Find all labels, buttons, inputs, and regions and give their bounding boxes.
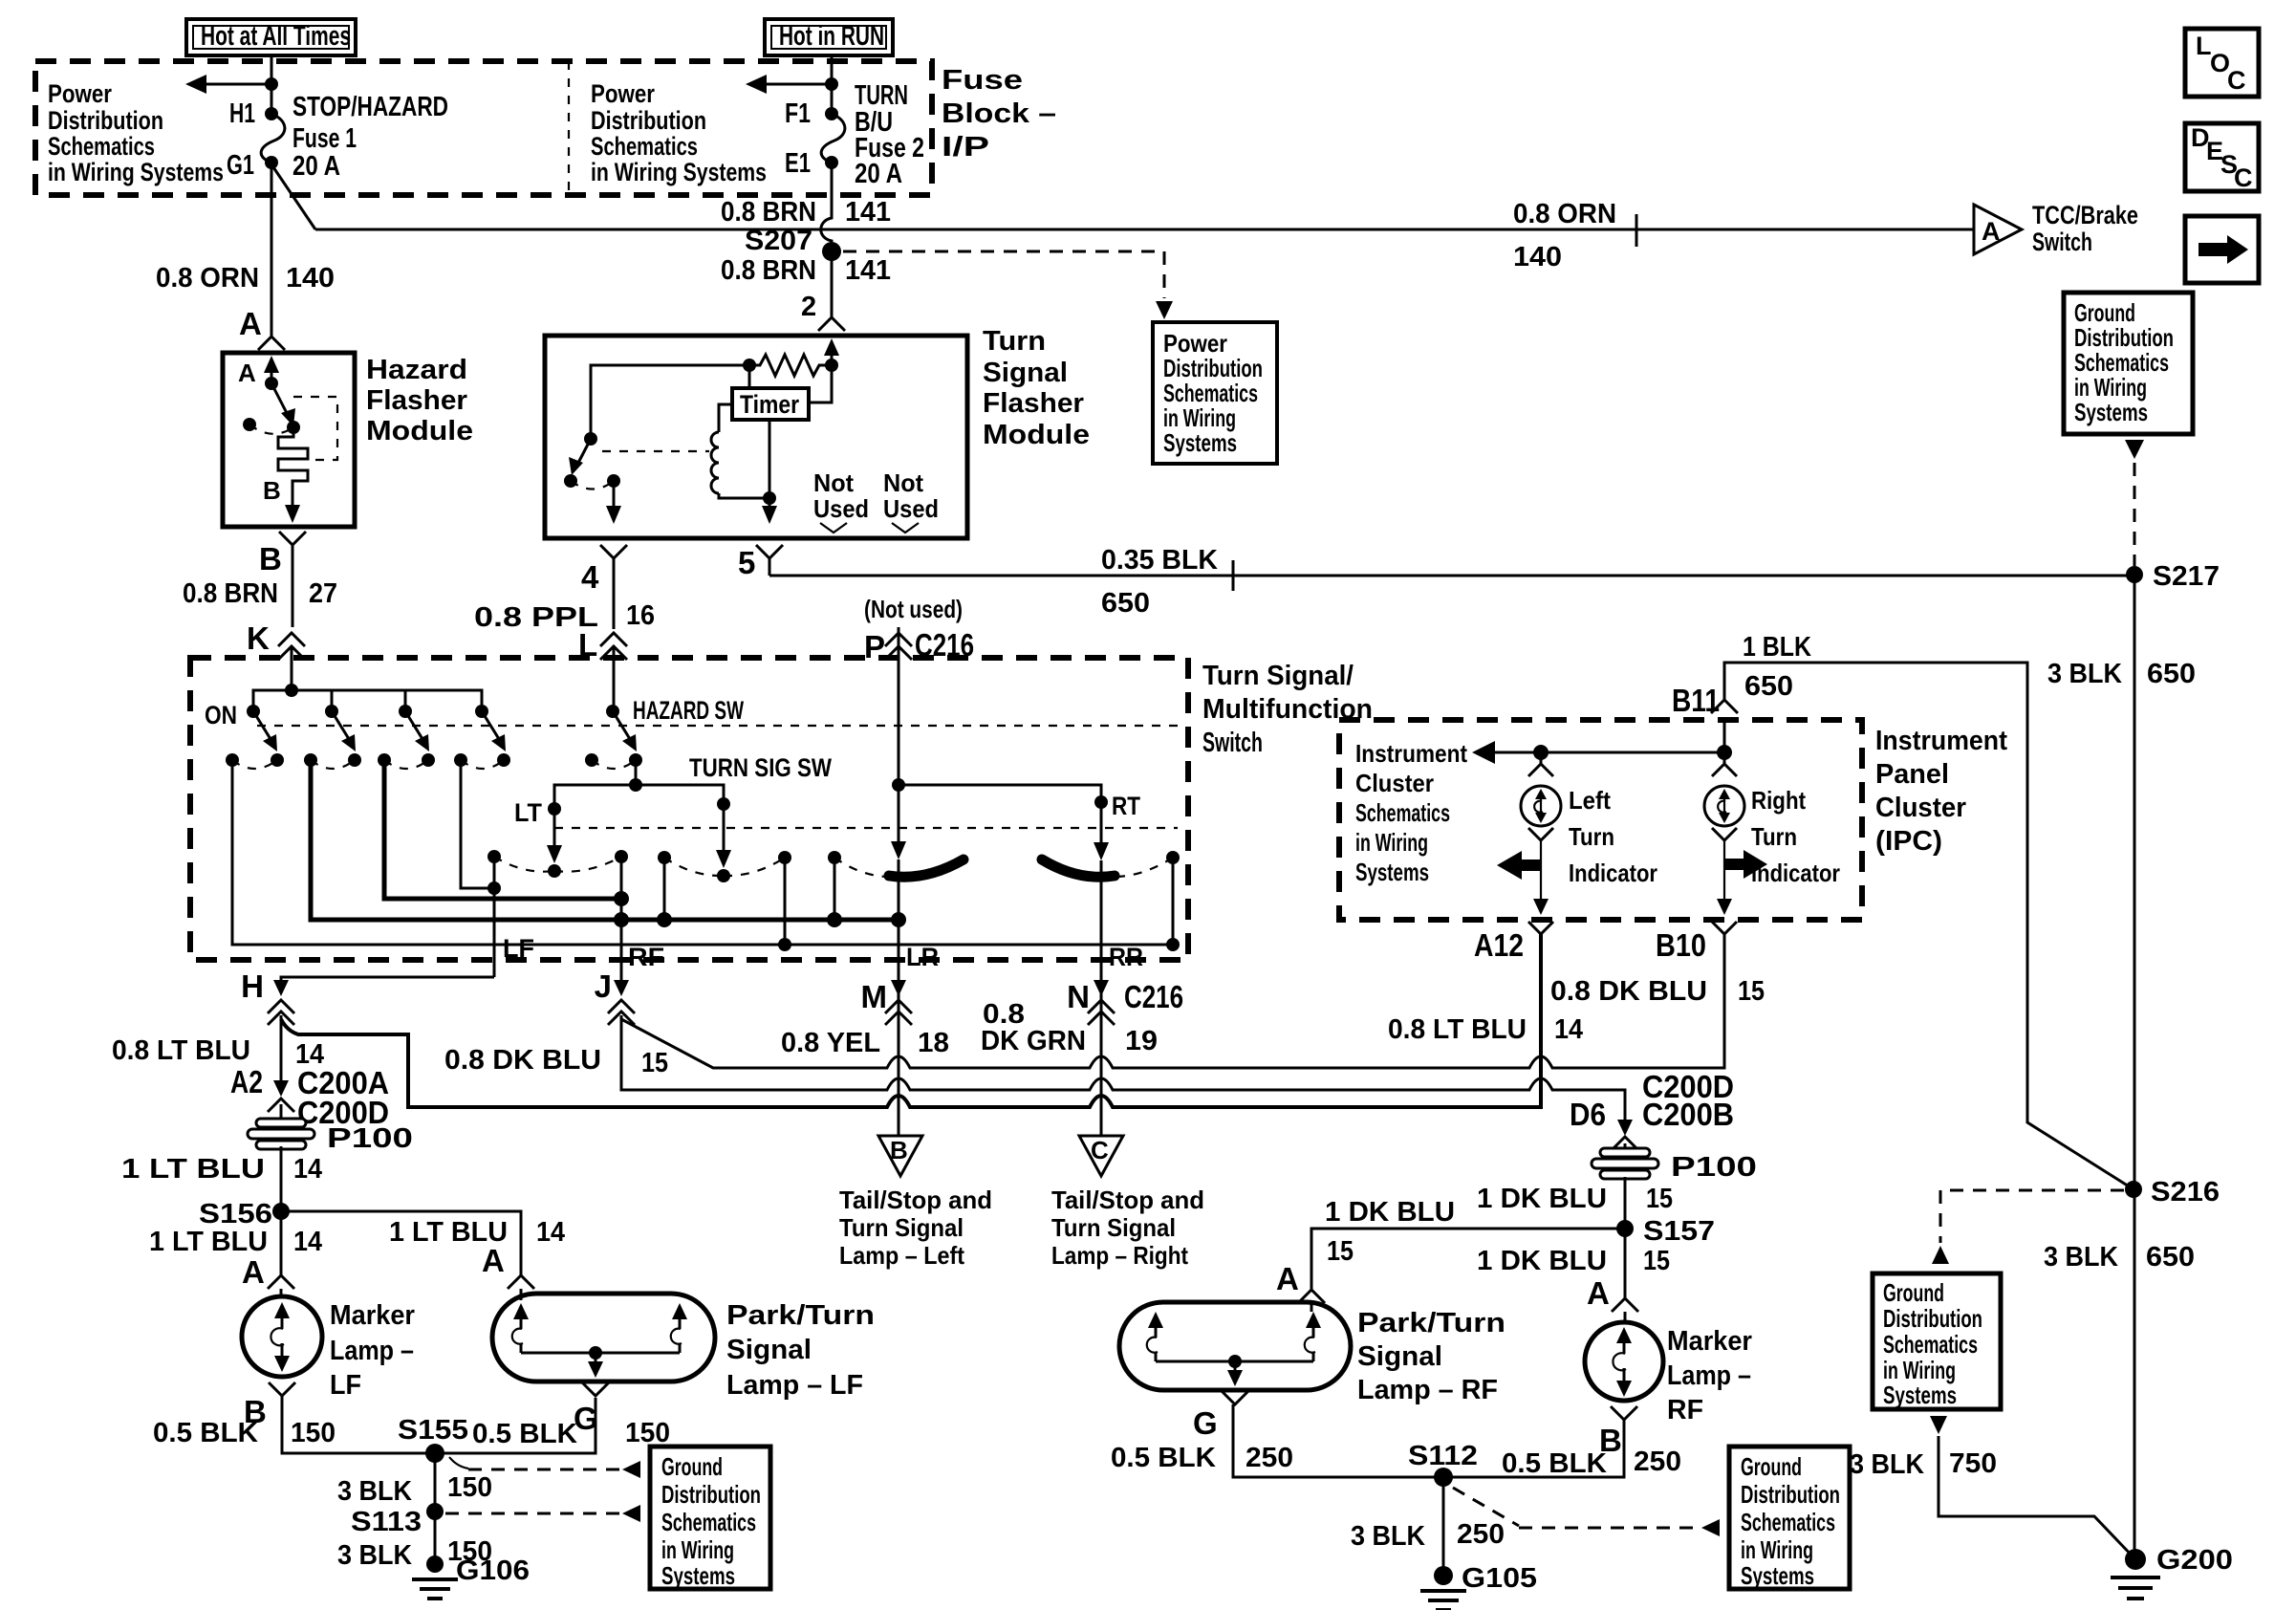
svg-text:Distribution: Distribution xyxy=(48,106,163,135)
svg-text:0.8 BRN: 0.8 BRN xyxy=(721,197,816,228)
svg-text:Systems: Systems xyxy=(1883,1381,1957,1409)
svg-text:Tail/Stop and: Tail/Stop and xyxy=(839,1186,992,1214)
svg-text:in Wiring: in Wiring xyxy=(661,1535,734,1564)
svg-text:Switch: Switch xyxy=(2032,228,2092,256)
svg-text:ON: ON xyxy=(205,701,237,729)
svg-text:18: 18 xyxy=(918,1028,949,1058)
svg-text:Right: Right xyxy=(1751,786,1806,815)
svg-text:LR: LR xyxy=(906,943,939,971)
svg-text:S216: S216 xyxy=(2151,1177,2220,1207)
svg-text:C: C xyxy=(1091,1136,1109,1164)
svg-text:Used: Used xyxy=(813,494,869,523)
svg-text:0.5 BLK: 0.5 BLK xyxy=(1502,1448,1607,1479)
svg-text:Ground: Ground xyxy=(1741,1452,1802,1481)
svg-text:B10: B10 xyxy=(1656,927,1706,963)
svg-text:Block –: Block – xyxy=(942,98,1056,129)
svg-text:in Wiring: in Wiring xyxy=(1355,828,1428,857)
svg-text:in Wiring Systems: in Wiring Systems xyxy=(48,158,224,186)
svg-text:Park/Turn: Park/Turn xyxy=(726,1300,875,1331)
svg-text:20 A: 20 A xyxy=(855,159,902,189)
svg-text:14: 14 xyxy=(293,1154,322,1185)
svg-text:TURN SIG SW: TURN SIG SW xyxy=(689,753,832,782)
svg-text:141: 141 xyxy=(845,197,891,228)
svg-text:Distribution: Distribution xyxy=(661,1480,761,1509)
svg-text:Tail/Stop and: Tail/Stop and xyxy=(1051,1186,1204,1214)
svg-text:K: K xyxy=(247,620,270,656)
svg-text:15: 15 xyxy=(1738,976,1765,1007)
svg-text:0.8 DK BLU: 0.8 DK BLU xyxy=(444,1045,601,1076)
svg-text:A: A xyxy=(482,1243,505,1278)
svg-text:Cluster: Cluster xyxy=(1875,793,1966,823)
svg-text:19: 19 xyxy=(1125,1026,1158,1056)
svg-text:Turn: Turn xyxy=(983,326,1046,357)
svg-text:S207: S207 xyxy=(745,226,812,256)
svg-text:14: 14 xyxy=(293,1227,322,1257)
svg-text:0.5 BLK: 0.5 BLK xyxy=(153,1418,258,1448)
svg-text:G106: G106 xyxy=(456,1556,530,1586)
svg-text:Hot in RUN: Hot in RUN xyxy=(779,21,884,52)
svg-text:0.8 YEL: 0.8 YEL xyxy=(781,1028,880,1058)
svg-text:2: 2 xyxy=(801,292,816,322)
svg-text:G200: G200 xyxy=(2156,1545,2233,1576)
svg-text:3 BLK: 3 BLK xyxy=(2047,659,2122,689)
svg-text:3 BLK: 3 BLK xyxy=(1850,1449,1924,1480)
svg-text:20 A: 20 A xyxy=(292,151,340,182)
svg-text:Schematics: Schematics xyxy=(1883,1330,1978,1359)
svg-text:15: 15 xyxy=(1327,1236,1354,1267)
svg-text:C216: C216 xyxy=(1124,979,1183,1014)
svg-text:Left: Left xyxy=(1569,786,1611,815)
svg-text:Schematics: Schematics xyxy=(1355,798,1450,827)
svg-text:1 DK BLU: 1 DK BLU xyxy=(1477,1246,1607,1276)
svg-text:Used: Used xyxy=(883,494,939,523)
svg-text:A: A xyxy=(1982,217,2001,246)
svg-text:G105: G105 xyxy=(1462,1563,1537,1594)
svg-text:Hot at All Times: Hot at All Times xyxy=(201,21,351,52)
svg-text:B: B xyxy=(259,541,282,577)
svg-text:650: 650 xyxy=(1101,588,1150,619)
svg-text:Schematics: Schematics xyxy=(48,132,155,161)
svg-text:J: J xyxy=(595,968,612,1004)
svg-text:650: 650 xyxy=(1744,671,1793,702)
svg-text:3 BLK: 3 BLK xyxy=(337,1540,412,1571)
svg-text:650: 650 xyxy=(2146,1242,2195,1273)
svg-text:1 LT BLU: 1 LT BLU xyxy=(149,1227,268,1257)
svg-text:in Wiring Systems: in Wiring Systems xyxy=(591,158,767,186)
svg-text:Marker: Marker xyxy=(1667,1326,1752,1357)
svg-text:0.8 BRN: 0.8 BRN xyxy=(721,255,816,286)
svg-text:1 LT BLU: 1 LT BLU xyxy=(121,1154,265,1185)
svg-text:in Wiring: in Wiring xyxy=(1741,1535,1813,1564)
svg-text:I/P: I/P xyxy=(942,132,989,163)
svg-text:0.5 BLK: 0.5 BLK xyxy=(472,1419,577,1449)
svg-text:4: 4 xyxy=(581,559,599,595)
svg-text:RF: RF xyxy=(1667,1395,1703,1425)
svg-text:B: B xyxy=(263,476,281,505)
svg-text:0.8 ORN: 0.8 ORN xyxy=(1513,199,1616,229)
svg-text:C200B: C200B xyxy=(1642,1097,1734,1132)
svg-text:Schematics: Schematics xyxy=(1741,1508,1835,1536)
svg-text:(Not used): (Not used) xyxy=(864,595,963,623)
svg-text:LF: LF xyxy=(330,1370,361,1401)
svg-text:G1: G1 xyxy=(227,150,254,181)
svg-text:E1: E1 xyxy=(785,148,811,179)
svg-text:A2: A2 xyxy=(230,1064,263,1099)
svg-text:Distribution: Distribution xyxy=(591,106,706,135)
svg-text:A: A xyxy=(242,1254,265,1290)
svg-text:RR: RR xyxy=(1109,943,1143,971)
svg-text:16: 16 xyxy=(626,600,655,631)
svg-text:Signal: Signal xyxy=(726,1335,812,1365)
svg-text:Systems: Systems xyxy=(661,1561,735,1590)
svg-text:Turn Signal: Turn Signal xyxy=(839,1213,964,1242)
svg-text:140: 140 xyxy=(286,263,335,294)
svg-text:Power: Power xyxy=(591,79,655,108)
svg-text:1 DK BLU: 1 DK BLU xyxy=(1477,1184,1607,1214)
svg-text:P100: P100 xyxy=(327,1123,413,1154)
svg-text:Instrument: Instrument xyxy=(1875,726,2007,756)
svg-text:Lamp –: Lamp – xyxy=(1667,1360,1751,1391)
svg-text:Not: Not xyxy=(883,468,923,497)
svg-text:0.5 BLK: 0.5 BLK xyxy=(1111,1443,1216,1473)
svg-text:0.35 BLK: 0.35 BLK xyxy=(1101,545,1218,576)
svg-text:Cluster: Cluster xyxy=(1355,769,1434,797)
svg-text:RF: RF xyxy=(628,943,664,971)
svg-text:15: 15 xyxy=(1643,1246,1670,1276)
svg-text:TCC/Brake: TCC/Brake xyxy=(2032,201,2138,229)
svg-text:A12: A12 xyxy=(1474,927,1524,963)
svg-text:150: 150 xyxy=(447,1472,492,1503)
svg-text:140: 140 xyxy=(1513,242,1562,272)
svg-text:0.8 BRN: 0.8 BRN xyxy=(183,578,278,609)
svg-text:Hazard: Hazard xyxy=(366,355,467,385)
svg-text:27: 27 xyxy=(309,578,337,609)
svg-text:Switch: Switch xyxy=(1202,728,1263,758)
svg-text:Module: Module xyxy=(366,416,473,446)
svg-text:C: C xyxy=(2234,163,2253,192)
svg-text:Lamp – RF: Lamp – RF xyxy=(1357,1375,1498,1405)
svg-text:Schematics: Schematics xyxy=(661,1508,756,1536)
svg-text:3 BLK: 3 BLK xyxy=(2044,1242,2118,1273)
svg-text:150: 150 xyxy=(291,1418,336,1448)
svg-text:Timer: Timer xyxy=(740,390,799,419)
svg-text:1 DK BLU: 1 DK BLU xyxy=(1325,1197,1455,1228)
svg-text:Fuse 1: Fuse 1 xyxy=(292,123,357,154)
svg-text:Distribution: Distribution xyxy=(1883,1304,1982,1333)
svg-text:Turn Signal: Turn Signal xyxy=(1051,1213,1176,1242)
svg-text:Signal: Signal xyxy=(983,358,1068,388)
svg-text:250: 250 xyxy=(1634,1447,1681,1477)
svg-text:150: 150 xyxy=(625,1418,670,1448)
svg-text:S155: S155 xyxy=(398,1415,468,1446)
svg-text:Ground: Ground xyxy=(661,1452,723,1481)
svg-text:C: C xyxy=(2227,66,2246,95)
svg-text:15: 15 xyxy=(1646,1184,1673,1214)
svg-text:Ground: Ground xyxy=(1883,1278,1944,1307)
svg-text:14: 14 xyxy=(1554,1014,1583,1045)
svg-text:0.8 DK BLU: 0.8 DK BLU xyxy=(1550,976,1707,1007)
svg-text:3 BLK: 3 BLK xyxy=(1351,1521,1425,1552)
svg-text:LT: LT xyxy=(514,798,542,827)
svg-text:Lamp – Left: Lamp – Left xyxy=(839,1241,964,1270)
svg-text:H1: H1 xyxy=(229,98,255,129)
svg-text:0.8 ORN: 0.8 ORN xyxy=(156,263,259,294)
svg-text:D6: D6 xyxy=(1570,1097,1606,1132)
svg-text:Power: Power xyxy=(48,79,112,108)
svg-text:141: 141 xyxy=(845,255,891,286)
svg-text:B: B xyxy=(890,1136,908,1164)
svg-text:M: M xyxy=(861,979,888,1014)
svg-text:Turn: Turn xyxy=(1751,822,1797,851)
svg-text:(IPC): (IPC) xyxy=(1875,826,1942,857)
svg-text:Flasher: Flasher xyxy=(366,385,467,416)
svg-text:LF: LF xyxy=(503,934,534,963)
svg-text:A: A xyxy=(238,359,256,387)
svg-text:Not: Not xyxy=(813,468,854,497)
svg-text:0.8 LT BLU: 0.8 LT BLU xyxy=(112,1035,250,1066)
svg-text:0.8 LT BLU: 0.8 LT BLU xyxy=(1388,1014,1527,1045)
svg-text:Park/Turn: Park/Turn xyxy=(1357,1308,1505,1338)
svg-text:Systems: Systems xyxy=(1163,428,1237,457)
svg-text:S157: S157 xyxy=(1643,1216,1715,1247)
svg-text:Turn Signal/: Turn Signal/ xyxy=(1202,661,1354,691)
svg-text:15: 15 xyxy=(641,1048,668,1078)
svg-text:Schematics: Schematics xyxy=(591,132,698,161)
svg-text:N: N xyxy=(1067,979,1090,1014)
svg-text:Systems: Systems xyxy=(1741,1561,1814,1590)
svg-text:14: 14 xyxy=(536,1217,565,1248)
svg-text:Module: Module xyxy=(983,420,1090,450)
svg-text:G: G xyxy=(1193,1405,1218,1441)
svg-text:Lamp – Right: Lamp – Right xyxy=(1051,1241,1188,1270)
svg-text:Distribution: Distribution xyxy=(1741,1480,1840,1509)
svg-text:A: A xyxy=(1587,1275,1610,1311)
svg-text:Systems: Systems xyxy=(1355,858,1429,886)
svg-text:RT: RT xyxy=(1112,792,1140,820)
svg-text:1 BLK: 1 BLK xyxy=(1743,632,1811,663)
svg-text:H: H xyxy=(241,968,264,1004)
svg-text:S113: S113 xyxy=(351,1507,422,1537)
svg-text:Fuse: Fuse xyxy=(942,65,1023,96)
svg-text:S156: S156 xyxy=(199,1199,272,1229)
svg-text:Indicator: Indicator xyxy=(1569,859,1657,887)
svg-text:B11: B11 xyxy=(1672,683,1720,718)
svg-text:HAZARD SW: HAZARD SW xyxy=(633,696,744,725)
svg-text:Instrument: Instrument xyxy=(1355,739,1467,768)
svg-text:F1: F1 xyxy=(785,98,811,129)
svg-text:650: 650 xyxy=(2147,659,2196,689)
svg-text:Turn: Turn xyxy=(1569,822,1614,851)
svg-text:Marker: Marker xyxy=(330,1300,415,1331)
svg-text:A: A xyxy=(1276,1261,1299,1296)
svg-text:5: 5 xyxy=(738,545,755,580)
svg-text:P100: P100 xyxy=(1671,1152,1757,1183)
svg-text:A: A xyxy=(239,306,262,341)
svg-text:S217: S217 xyxy=(2153,561,2220,592)
svg-text:Panel: Panel xyxy=(1875,759,1949,790)
svg-text:250: 250 xyxy=(1245,1443,1293,1473)
svg-text:250: 250 xyxy=(1457,1519,1505,1550)
svg-text:Flasher: Flasher xyxy=(983,388,1084,419)
svg-text:Signal: Signal xyxy=(1357,1341,1442,1372)
svg-text:Lamp –: Lamp – xyxy=(330,1336,414,1366)
svg-text:Lamp – LF: Lamp – LF xyxy=(726,1370,863,1401)
svg-text:750: 750 xyxy=(1949,1448,1997,1479)
svg-text:DK GRN: DK GRN xyxy=(981,1026,1086,1056)
svg-text:Systems: Systems xyxy=(2074,398,2148,426)
svg-text:3 BLK: 3 BLK xyxy=(337,1476,412,1507)
svg-text:STOP/HAZARD: STOP/HAZARD xyxy=(292,92,448,122)
svg-text:S112: S112 xyxy=(1408,1441,1478,1471)
